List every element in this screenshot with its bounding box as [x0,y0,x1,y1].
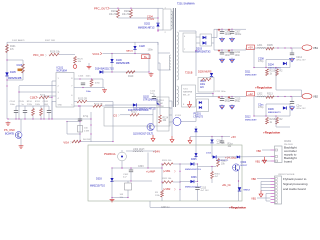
connector CN201 label [284,141,293,146]
diode D305 [185,159,201,171]
junction y168 [111,167,122,168]
svg-text:Q102: Q102 [143,96,150,99]
text backlight note [284,146,297,164]
resistor R103 [22,64,25,73]
transistor Q102 [157,99,160,105]
transformer secondary B winding [177,86,179,105]
diode D208 [206,152,216,158]
svg-text:470p: 470p [258,60,264,63]
svg-text:R124: R124 [163,117,169,119]
wire d306 in [180,181,190,183]
svg-text:C210: C210 [200,81,206,83]
gnd arrow mid [188,137,196,144]
optocoupler PC201 label [194,113,204,119]
transformer secondary A box [183,33,196,52]
wire IC pin8 out [74,78,103,80]
svg-text:): ) [119,113,120,117]
svg-text:R2: R2 [280,119,284,121]
net label PFC_OK [33,53,46,57]
connector CN202 box [271,176,282,204]
svg-text:100k: 100k [35,104,41,106]
wire reg1 loop [266,60,290,68]
wire mosfet branch [158,62,160,64]
svg-text:D104 BAS21LT1G: D104 BAS21LT1G [95,68,114,71]
svg-text:103W: 103W [158,106,165,108]
diode D207 zener down [210,140,213,143]
svg-text:+Regulation: +Regulation [229,206,246,210]
svg-text:T201: T201 [183,89,189,91]
svg-text:PFC_OK: PFC_OK [33,53,44,57]
svg-text:10k: 10k [221,163,226,165]
wire y134 [67,133,80,135]
svg-text:R3: R3 [155,192,159,194]
capacitor C313 [220,137,224,143]
junction cluster [211,136,222,137]
svg-text:1u: 1u [21,104,24,106]
wire reg2 down [275,116,277,127]
snubber box [198,78,214,93]
ground small upper [87,63,92,69]
wire x162 col [161,164,163,188]
svg-text:VB2: VB2 [251,177,256,181]
svg-text:C212: C212 [296,56,302,59]
svg-text:470n: 470n [95,83,101,85]
resistor R216a [276,69,284,76]
label L201 R205 [257,44,273,47]
resistor R121 box [78,126,91,133]
resistor R205 [266,47,274,50]
svg-text:D206: D206 [268,108,274,111]
transformer secondary winding [177,32,179,80]
svg-text:D211: D211 [245,72,251,74]
svg-text:471p: 471p [83,116,89,118]
wire PFC_OK drop [74,63,76,65]
wire y136 cluster [196,136,230,138]
capacitor C215 [228,96,241,103]
inductor L302 [133,151,143,152]
net label CS [113,113,119,117]
wire to CN201 [217,156,271,158]
wire reg1 mid [254,67,290,69]
svg-text:D303: D303 [96,178,102,181]
svg-text:L202: L202 [257,93,263,96]
resistor R125 [74,57,84,64]
junction C1B [51,97,52,98]
transformer core [173,8,175,107]
resistor R110 [27,101,35,119]
wire cn201 pin3 [261,160,271,162]
wire rail x44 [43,96,45,119]
power flag +12V [247,92,255,97]
svg-text:SAMWHA: SAMWHA [183,91,193,94]
net label VB1 cn2 [251,196,256,200]
svg-text:100: 100 [84,128,88,130]
output terminal VB1 [302,45,318,50]
net label +Regulation (1) [255,86,272,90]
label D203 [195,48,211,54]
small label on vcc rail [12,39,55,42]
svg-text:R213: R213 [267,93,273,96]
transformer primary winding [171,11,173,29]
svg-text:MBRS360T3: MBRS360T3 [268,112,281,114]
gnd arrow opto [188,101,192,108]
svg-text:4u7: 4u7 [123,177,127,179]
svg-text:R115 2R: R115 2R [78,99,87,101]
wire aux drop2 [157,53,159,70]
wire rail1 [255,47,303,49]
capacitor C128 label [139,45,153,52]
wire x212 cluster [211,137,213,158]
resistor R202 [122,10,133,18]
svg-text:100n: 100n [148,49,154,52]
svg-text:8: 8 [71,78,73,80]
diode D210 zener [194,153,197,156]
diode D206 [283,106,287,109]
diode D106 zener [110,59,129,65]
wire bottom inner [112,197,128,199]
svg-text:3: 3 [58,92,60,94]
transistor Q304 [233,164,240,171]
svg-text:470u: 470u [225,100,231,103]
junction reg1 [253,67,276,68]
svg-text:R101: R101 [10,46,16,48]
wire r318 stubs [161,188,163,201]
svg-text:R313: R313 [221,161,227,163]
svg-text:+12: +12 [248,92,253,96]
wire CS [120,114,130,116]
wire pin drop x80 [79,106,81,142]
resistor R218 [266,118,276,125]
wire D203 out bottom [212,43,215,50]
net label T301A [104,153,116,156]
net label +VB2 [163,187,176,191]
capacitor C207 [228,29,242,36]
bus +5V top [214,28,246,30]
wire R202 stub [130,17,132,20]
wire box top inner [126,150,156,152]
junction dots cap bank 1 [221,29,232,51]
svg-text:D204: D204 [268,64,274,67]
vertical lamp cap [123,168,133,181]
resistor R117 [93,104,103,108]
bus join vertical [213,29,215,43]
wire D108 to vcc1 [134,50,136,54]
capacitor C214 [218,96,231,103]
junction y105 [159,104,160,105]
gnd arrow CN201 [263,157,267,164]
transistor Q102 label [143,96,157,102]
wire primary pin2 [158,29,163,31]
wire IC out pin5 [74,105,93,107]
resistor R316 [211,172,221,179]
junction secB [212,93,213,94]
label D206 [268,108,281,114]
svg-text:1: 1 [58,78,60,80]
ground below C214 [220,104,225,109]
svg-text:T201B: T201B [185,72,193,75]
wire IC left pin stubs [44,81,56,102]
wire rail x52b [51,101,53,119]
wire primary drop to MOSFET [159,63,161,105]
net label +Regulation (3) [229,206,246,210]
junction r316 [211,166,212,167]
wire gnd C107 [103,87,105,89]
svg-text:8: 8 [183,104,185,106]
net label C1B [30,96,38,100]
text flyback note [283,177,308,191]
wire reg2 mid [254,115,290,117]
svg-text:MMSZ: MMSZ [244,190,251,192]
resistor R114 [39,94,49,98]
wire reg1 feed [253,48,255,68]
svg-text:2: 2 [165,32,167,34]
transformer primary box [163,8,171,35]
svg-text:VB2: VB2 [313,94,318,98]
wire to IC pin2 [19,91,56,93]
label C208 [258,57,264,63]
wire d305 out [195,163,198,165]
wire x153 [152,109,154,122]
wire aux pin4 [158,69,170,71]
wire cn202 pin1 [257,178,271,180]
wire rail x52 [51,81,53,119]
svg-text:+LAMP: +LAMP [146,170,155,174]
thermistor mark [18,69,23,72]
wire tl431 link [181,121,196,123]
ground below C206 [220,37,225,42]
wire d305 in [180,163,190,165]
svg-text:PC201: PC201 [194,113,202,116]
wire r305 top [127,181,129,183]
svg-text:R123: R123 [131,112,137,114]
svg-text:): ) [175,187,176,191]
wire cn202 gnd pins [261,182,271,191]
svg-text:Q304: Q304 [241,162,247,164]
svg-text:103: 103 [120,194,124,196]
resistor R101 [6,45,17,53]
resistor R213 [266,96,274,99]
svg-text:100n: 100n [10,104,16,106]
wire cn202 pin mid [266,194,271,202]
resistor R113 [90,80,101,87]
svg-text:C128: C128 [139,45,145,48]
ground below C207 [230,37,235,42]
connector CN202 label [278,174,295,176]
wire secA pin7 out [196,42,200,44]
label D205 red [198,71,212,74]
label C303 [138,166,144,168]
label R220 [228,143,234,148]
svg-text:EEL-19: EEL-19 [183,95,191,97]
svg-text:+24_Blg: +24_Blg [225,156,236,160]
diode D104 [95,68,114,74]
svg-text:MMSZ5248B: MMSZ5248B [116,63,130,65]
svg-text:IC201: IC201 [158,100,165,102]
transformer secondary B label [185,72,193,75]
svg-text:6: 6 [71,95,73,97]
junction pins [18,91,19,92]
net label +Regulation (2) [263,131,280,135]
svg-text:470u: 470u [235,100,241,103]
optocoupler PC201 box [197,99,209,112]
junction dots bus [7,118,52,119]
diode D306 [185,177,201,188]
net label VCC1 [92,52,102,56]
resistor R318 low [155,191,163,198]
wire Q101 emitter [20,138,22,144]
diode D108 [133,46,136,49]
wire snubber mid drop [195,51,197,77]
svg-text:10k: 10k [228,146,233,148]
junction dots rail2 [277,96,291,97]
svg-text:R310 10k: R310 10k [162,160,172,162]
svg-text:(+VB2: (+VB2 [163,187,171,191]
wire C1B [49,96,52,98]
svg-text:C106: C106 [78,76,84,78]
wire reg2 loop [266,104,290,116]
resistor R313 [217,159,228,167]
svg-text:D212: D212 [245,117,251,119]
wire row2 [173,181,180,183]
junction dots rail2 bank [221,96,232,97]
wire reg1 down [275,68,277,91]
svg-text:D315: D315 [206,152,212,154]
svg-text:C204: C204 [147,15,153,18]
svg-text:7: 7 [184,49,186,51]
wire left rail [6,42,8,119]
capacitor C206 [218,29,232,36]
svg-text:D306: D306 [191,177,197,179]
ground aux [149,54,154,77]
svg-text:C2xx: C2xx [296,105,302,108]
wire Q101 collector [20,119,22,132]
wire lamp bottom [121,161,123,168]
ground below C211 [230,58,235,63]
wire primary pin1 [158,7,163,9]
capacitor C109 [43,101,52,119]
wire aux pin3 [158,52,170,54]
svg-text:BAS21: BAS21 [126,50,134,53]
wire secB out [196,93,213,95]
diode D202 [138,22,160,29]
ground Q101 [19,144,24,148]
junction x197 [197,163,198,182]
svg-text:100n: 100n [86,76,92,78]
svg-text:Signal processing: Signal processing [283,182,308,186]
wire resistor bottoms [118,17,158,19]
svg-text:T201 SAMWHA: T201 SAMWHA [177,3,195,6]
svg-text:MMSZ4689: MMSZ4689 [245,74,257,76]
net label 24_Blg [225,156,236,160]
svg-text:+24V: +24V [153,150,160,154]
svg-text:L201: L201 [257,44,263,47]
dual diode D203 box [200,34,212,46]
junction dots rail1 [277,47,291,48]
svg-text:and Audio board: and Audio board [283,187,306,191]
junction right rail [90,118,91,134]
wire CS right [139,114,153,116]
svg-text:10k 2W: 10k 2W [122,13,131,16]
svg-text:VB1: VB1 [255,159,260,163]
svg-text:10k: 10k [163,120,168,122]
wire y168 [112,167,162,169]
svg-text:D305: D305 [191,159,197,161]
junction VCC1 [111,53,135,54]
label D107 [133,109,156,111]
wire row1 [173,163,180,165]
svg-text:MM3Z15VT1G: MM3Z15VT1G [90,186,105,188]
wire VCC rail top [7,41,158,43]
svg-text:C105: C105 [19,101,25,103]
wire reg2 out [276,126,290,128]
svg-text:): ) [71,140,72,144]
resistor R201 [109,10,120,18]
svg-text:R114: R114 [40,94,46,96]
svg-text:VCC1: VCC1 [92,52,100,56]
wire R115 to drop [87,101,113,103]
svg-text:4: 4 [184,36,186,38]
transformer T201 label [177,3,195,6]
svg-text:+BL_On: +BL_On [222,184,232,187]
svg-text:100n: 100n [235,54,241,57]
wire reg1 out [276,89,302,91]
diode D216 [237,156,240,159]
svg-text:R107 10R: R107 10R [45,40,55,42]
svg-text:BC817: BC817 [241,165,248,167]
wire VGA to x113 [81,141,113,143]
svg-text:10k: 10k [120,197,124,199]
svg-text:C303: C303 [138,166,144,168]
svg-text:Flyback power to: Flyback power to [283,177,307,181]
svg-text:1n 1kV: 1n 1kV [147,19,155,21]
svg-text:GND: GND [58,105,63,107]
transistor Q103 label [133,133,154,135]
label D212 zener [245,117,257,122]
svg-text:7: 7 [71,86,73,88]
transistor Q101 [15,132,22,139]
svg-text:BC847B: BC847B [5,133,14,136]
svg-text:board: board [284,160,292,164]
gnd arrow CN202 [259,191,263,198]
net label +5Vs [231,135,236,139]
transistor Q304 label [241,162,248,167]
svg-text:R119: R119 [128,76,134,78]
svg-text:2: 2 [58,86,60,88]
test point circle [73,65,77,69]
wire reg3 stub [149,201,151,207]
net label +24V [153,150,160,154]
wire aux bottom [99,71,149,73]
svg-text:Q103 BC817-25LT1: Q103 BC817-25LT1 [133,133,154,135]
wire Q103 top [152,122,154,124]
capacitor C107 [81,83,92,93]
wire D203 out top [212,29,218,37]
ground backlight [110,198,115,202]
ground tri C212 [290,48,295,62]
svg-text:3k3 5W: 3k3 5W [83,139,91,141]
wire x112 down [111,168,113,198]
wire cn202 pin8 [257,197,271,199]
net label VB1 cn [255,159,260,163]
svg-text:470u 25V: 470u 25V [296,108,306,110]
transformer aux winding [169,55,171,70]
capacitor C111 [78,116,89,121]
wire x67 [66,122,68,135]
net label VGA [63,140,71,144]
label C103 [17,64,23,67]
svg-text:C315: C315 [201,187,207,189]
transistor Q101 label [5,133,14,136]
